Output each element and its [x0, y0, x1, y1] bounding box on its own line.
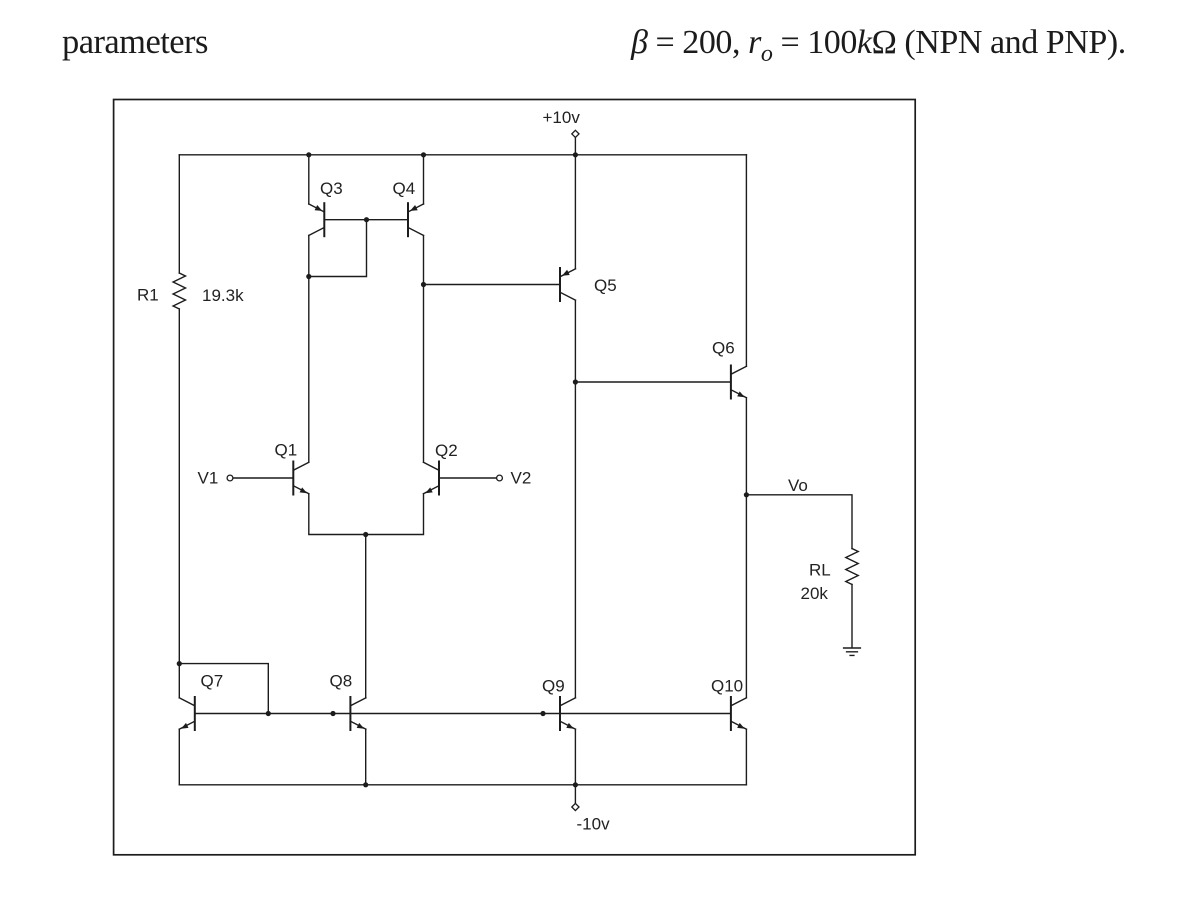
- svg-text:+10v: +10v: [543, 108, 581, 127]
- svg-text:Q10: Q10: [711, 676, 743, 695]
- svg-text:Q4: Q4: [393, 179, 416, 198]
- svg-text:-10v: -10v: [577, 814, 611, 833]
- svg-text:Q1: Q1: [275, 441, 298, 460]
- svg-text:Q5: Q5: [594, 276, 617, 295]
- svg-text:Q7: Q7: [201, 672, 224, 691]
- svg-text:Q9: Q9: [542, 676, 565, 695]
- svg-text:Q3: Q3: [320, 179, 343, 198]
- svg-text:R1: R1: [137, 286, 159, 305]
- svg-text:Q6: Q6: [712, 339, 735, 358]
- svg-text:V1: V1: [198, 469, 219, 488]
- svg-text:19.3k: 19.3k: [202, 286, 244, 305]
- svg-text:RL: RL: [809, 561, 831, 580]
- svg-text:Q8: Q8: [330, 672, 353, 691]
- svg-text:Vo: Vo: [788, 476, 808, 495]
- svg-text:Q2: Q2: [435, 441, 458, 460]
- svg-text:V2: V2: [511, 469, 532, 488]
- svg-text:20k: 20k: [801, 584, 829, 603]
